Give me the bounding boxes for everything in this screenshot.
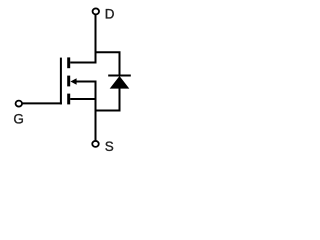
svg-text:S: S <box>105 139 114 154</box>
svg-text:D: D <box>105 6 115 21</box>
svg-text:G: G <box>13 111 24 126</box>
